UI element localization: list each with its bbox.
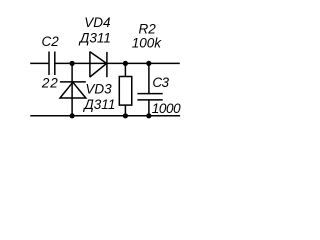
svg-text:100k: 100k: [132, 36, 163, 51]
svg-text:Д311: Д311: [82, 97, 115, 112]
svg-text:Д311: Д311: [78, 31, 111, 46]
svg-text:VD3: VD3: [85, 82, 112, 97]
svg-text:C2: C2: [42, 34, 60, 49]
svg-text:22: 22: [41, 76, 59, 91]
svg-text:C3: C3: [152, 75, 169, 90]
svg-text:1000: 1000: [152, 101, 181, 116]
svg-text:R2: R2: [139, 21, 157, 36]
svg-text:VD4: VD4: [84, 15, 110, 30]
